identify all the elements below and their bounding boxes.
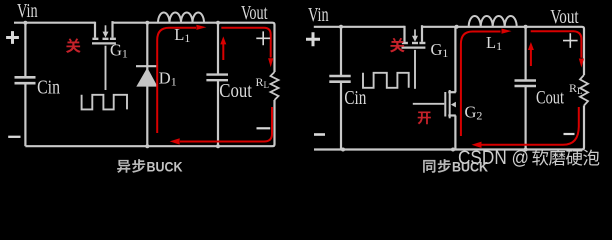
- wire: right rail below RL to bottom corner: [25, 100, 274, 146]
- wire: Cout branch lower (right): [524, 86, 526, 150]
- capacitor Cin (right): [329, 75, 350, 78]
- transistor G1 (right, switch off): [403, 26, 405, 42]
- wire: right circuit top rail segment: [314, 26, 405, 28]
- polarity + at Vin (right): [306, 32, 320, 46]
- current loop: down right side below RL: [180, 107, 272, 142]
- polarity - at Vin (left): [8, 136, 20, 138]
- wire: Cout branch upper: [217, 23, 219, 75]
- junction dots (left): [23, 21, 27, 25]
- wire: right rail below RL to bottom corner: [314, 106, 584, 150]
- svg-text:Cin: Cin: [344, 87, 366, 109]
- transistor G2 (sync rectifier, on): [448, 91, 456, 93]
- transistor G1 (left, switch off): [94, 22, 96, 38]
- diode D1 cathode bar: [136, 65, 157, 67]
- wire: top rail after G1 to Vout corner, down right side: [113, 23, 275, 72]
- polarity - at Vout (left): [257, 127, 271, 129]
- wire: top rail after G1 to Vout corner, down right side: [422, 27, 585, 75]
- wire: diode branch (switch node to ground): [146, 23, 148, 147]
- capacitor Cout (left): [206, 73, 228, 75]
- polarity - at Vin (right): [314, 133, 325, 136]
- current loop: up through D1: [156, 40, 158, 133]
- wire: Cout branch upper (right): [524, 27, 526, 81]
- current loop: segment after switch node to Vout corner, down: [221, 28, 270, 58]
- current arrow up through Cout branch: [222, 44, 224, 60]
- caption: synchronous BUCK: [423, 160, 435, 173]
- current loop: top curve and arrow right: [157, 28, 196, 40]
- current arrow up through Cout branch (right): [530, 50, 532, 66]
- wire: G2 branch lower to ground: [454, 116, 456, 150]
- wire: left top rail segment: [14, 22, 95, 24]
- capacitor Cout (right): [515, 79, 537, 81]
- PWM square wave (right gate drive): [363, 73, 409, 88]
- resistor RL (left): [271, 72, 279, 100]
- inductor L1 (left): [158, 13, 204, 23]
- svg-text:Cout: Cout: [219, 80, 252, 102]
- current loop: up through G2: [460, 44, 462, 136]
- caption: asynchronous BUCK: [117, 160, 130, 173]
- polarity + at Vin (left): [6, 31, 19, 44]
- label off (guan) red (left): [66, 38, 81, 53]
- wire: G1 gate lead down: [105, 46, 107, 90]
- PWM square wave (left gate drive): [82, 95, 127, 110]
- svg-text:Vin: Vin: [17, 1, 38, 22]
- label off (guan) red (right): [390, 38, 405, 53]
- polarity - at Vout (right): [564, 133, 575, 135]
- svg-text:BUCK: BUCK: [147, 159, 184, 175]
- wire: left input rail (Vin): [24, 22, 26, 77]
- wire: Cout branch lower: [217, 80, 219, 146]
- svg-text:Cout: Cout: [536, 87, 565, 108]
- current loop: down right side below RL (right): [481, 107, 579, 145]
- svg-text:Cin: Cin: [37, 76, 60, 98]
- wire: G2 gate lead horizontal: [413, 103, 445, 105]
- wire: G2 branch upper (switch node down): [454, 27, 456, 92]
- junction dots (right): [339, 25, 343, 29]
- polarity + at Vout (right): [563, 33, 578, 48]
- capacitor Cin (left): [15, 76, 36, 79]
- diode D1 body: [136, 68, 157, 87]
- polarity + at Vout (left): [256, 31, 270, 45]
- label on (kai) red (right): [418, 112, 431, 125]
- svg-text:CSDN @: CSDN @: [458, 148, 529, 169]
- inductor L1 (right): [469, 16, 517, 27]
- wire: G1 gate lead down (right): [414, 50, 416, 89]
- svg-text:Vin: Vin: [308, 5, 329, 26]
- svg-text:Vout: Vout: [241, 2, 268, 24]
- svg-text:Vout: Vout: [550, 6, 579, 28]
- current loop: after node to Vout corner, down (right): [531, 31, 582, 58]
- current loop: top curve and arrow right (right): [461, 32, 501, 45]
- resistor RL (right): [580, 75, 588, 106]
- wire: left input rail (right circuit): [340, 26, 342, 76]
